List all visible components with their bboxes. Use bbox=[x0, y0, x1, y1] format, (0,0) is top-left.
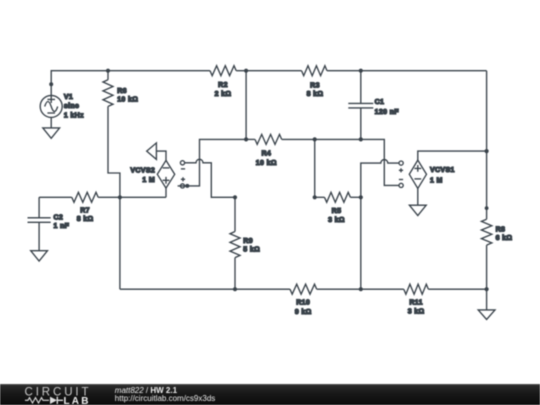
svg-text:C1: C1 bbox=[375, 99, 385, 106]
svg-text:2 kΩ: 2 kΩ bbox=[215, 91, 232, 98]
wire VCVS2 bottom lead bbox=[165, 188, 167, 197]
voltage source V1 bbox=[40, 94, 84, 120]
wire R9 top lead bbox=[234, 197, 236, 231]
svg-text:8 kΩ: 8 kΩ bbox=[307, 91, 324, 98]
svg-text:1 kHz: 1 kHz bbox=[64, 113, 84, 120]
svg-text:R3: R3 bbox=[310, 82, 320, 89]
wire R2 junction down to node A bbox=[245, 71, 247, 140]
svg-text:120 nF: 120 nF bbox=[375, 109, 400, 116]
svg-text:3 kΩ: 3 kΩ bbox=[328, 217, 345, 224]
wire V1 to ground bbox=[50, 117, 52, 128]
wire vertical x=360.8 down to bottom bus bbox=[360, 197, 362, 289]
resistor R5 bbox=[325, 192, 351, 224]
dependent source VCVS2 bbox=[130, 160, 174, 188]
svg-text:R9: R9 bbox=[243, 238, 253, 245]
svg-text:V1: V1 bbox=[64, 94, 73, 101]
svg-text:R2: R2 bbox=[218, 82, 228, 89]
node A junction dot bbox=[244, 137, 248, 141]
wire bottom bus y=289.2 bbox=[120, 288, 487, 290]
wire R4 to C1 bottom and VCVS1 - pin bbox=[282, 139, 400, 185]
svg-text:10 kΩ: 10 kΩ bbox=[256, 160, 277, 167]
node bottom mid junction bbox=[359, 287, 363, 291]
VCVS1 input pin + (top) bbox=[399, 161, 403, 165]
capacitor C2 bbox=[28, 197, 70, 250]
logo resistor squiggle bbox=[25, 398, 49, 403]
wire top net bbox=[51, 71, 486, 96]
svg-text:10 kΩ: 10 kΩ bbox=[117, 97, 138, 104]
wire R6 top lead bbox=[107, 71, 109, 80]
node left bus junction bbox=[118, 195, 122, 199]
svg-text:VCVS2: VCVS2 bbox=[130, 168, 155, 175]
svg-text:1 nF: 1 nF bbox=[54, 223, 70, 230]
dependent source VCVS1 bbox=[409, 160, 454, 188]
wire signal net y=197.3 left piece bbox=[39, 196, 166, 198]
node R5 left junction bbox=[313, 195, 317, 199]
node C1 bottom junction bbox=[359, 137, 363, 141]
resistor R2 bbox=[210, 66, 236, 98]
wire node A to R4 bbox=[246, 138, 255, 140]
wire right vertical bus x=486.6 bbox=[486, 71, 488, 310]
svg-text:8 kΩ: 8 kΩ bbox=[77, 216, 94, 223]
node C1 top junction bbox=[359, 69, 363, 73]
node bottom right junction bbox=[485, 287, 489, 291]
wire VCVS2 - pin with hop over vertical bbox=[185, 159, 235, 197]
svg-text:VCVS1: VCVS1 bbox=[430, 167, 455, 174]
svg-text:R8: R8 bbox=[496, 226, 506, 233]
resistor R7 bbox=[72, 192, 98, 223]
VCVS2 input pin + (bottom) bbox=[180, 184, 184, 188]
svg-text:5 kΩ: 5 kΩ bbox=[243, 246, 260, 253]
ground (below VCVS1) bbox=[409, 205, 426, 215]
wire vertical x=314.7 bbox=[314, 139, 316, 197]
svg-text:R5: R5 bbox=[332, 208, 342, 215]
svg-text:R10: R10 bbox=[296, 300, 310, 307]
node R4 right junction bbox=[313, 137, 317, 141]
ground (rotated, VCVS2 top) bbox=[147, 143, 157, 160]
wire R9 bottom lead bbox=[234, 258, 236, 290]
label - for VCVS2 top pin bbox=[181, 168, 185, 170]
node R9 bottom junction bbox=[233, 287, 237, 291]
svg-text:9 kΩ: 9 kΩ bbox=[295, 309, 312, 316]
logo diode bbox=[50, 397, 57, 404]
svg-text:http://circuitlab.com/cs9x3ds: http://circuitlab.com/cs9x3ds bbox=[115, 394, 215, 403]
wire VCVS2 top lead bbox=[156, 151, 166, 160]
label + for VCVS1 top pin bbox=[399, 168, 403, 172]
ground (bottom right) bbox=[478, 310, 495, 320]
resistor R10 bbox=[290, 284, 317, 316]
label - for VCVS1 bottom pin bbox=[399, 179, 403, 181]
wire VCVS1 top lead to right bus bbox=[418, 151, 487, 160]
resistor R11 bbox=[404, 284, 429, 316]
svg-text:R4: R4 bbox=[261, 151, 271, 158]
label + for VCVS2 bottom pin bbox=[181, 177, 185, 181]
resistor R3 bbox=[302, 66, 327, 98]
svg-text:LAB: LAB bbox=[64, 396, 91, 405]
node R8 pin dot bbox=[485, 206, 489, 210]
VCVS1 input pin - (bottom) bbox=[399, 183, 403, 187]
ground (below V1) bbox=[43, 128, 60, 138]
svg-text:1 M: 1 M bbox=[430, 178, 443, 185]
wire VCVS1 + pin with hop bbox=[361, 160, 399, 198]
wire R5 left lead bbox=[315, 196, 325, 198]
resistor R4 bbox=[255, 134, 282, 166]
wire VCVS1 bottom lead bbox=[417, 189, 419, 206]
svg-text:sine: sine bbox=[64, 103, 79, 110]
ground (below C2) bbox=[31, 251, 48, 261]
node V1 pin dot bbox=[49, 82, 53, 86]
node VCVS1 top junction bbox=[485, 149, 489, 153]
resistor R9 bbox=[230, 232, 260, 258]
capacitor C1 bbox=[348, 71, 399, 140]
resistor R8 bbox=[481, 219, 512, 245]
svg-text:R11: R11 bbox=[409, 300, 423, 307]
wire R6 bottom to left bus bbox=[108, 106, 120, 289]
svg-text:R6: R6 bbox=[117, 88, 127, 95]
wire R5 right lead bbox=[350, 196, 360, 198]
node R6 top junction bbox=[106, 69, 110, 73]
svg-text:1 M: 1 M bbox=[142, 177, 155, 184]
svg-text:R7: R7 bbox=[80, 207, 90, 214]
VCVS2 input pin - (top) bbox=[180, 161, 184, 165]
node R5 right junction bbox=[359, 195, 363, 199]
node VCVS2 + pin dot bbox=[185, 184, 189, 188]
wire VCVS2 + pin up to node A bbox=[178, 139, 247, 186]
svg-text:6 kΩ: 6 kΩ bbox=[496, 235, 513, 242]
node R9 top junction bbox=[233, 195, 237, 199]
svg-text:C2: C2 bbox=[54, 215, 64, 222]
svg-text:3 kΩ: 3 kΩ bbox=[408, 309, 425, 316]
node R2-R4 junction bbox=[244, 69, 248, 73]
resistor R6 bbox=[103, 80, 138, 107]
